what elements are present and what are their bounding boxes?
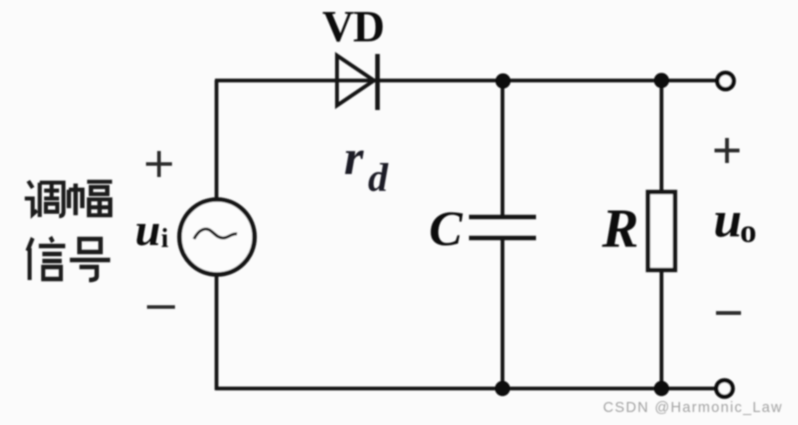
svg-text:d: d (368, 155, 389, 200)
svg-text:i: i (161, 223, 169, 253)
wire capacitor bottom lead (501, 239, 505, 389)
svg-text:o: o (740, 214, 757, 250)
minus sign at output (716, 311, 741, 315)
diode VD cathode bar (375, 54, 380, 110)
label 幅 (Chinese: amplitude) (69, 182, 112, 215)
wire capacitor top lead (501, 80, 505, 216)
wire top horizontal from source to output terminal (215, 79, 716, 83)
label 信 (Chinese: signal-1) (27, 237, 65, 280)
plus sign at output (715, 138, 740, 163)
plus sign at source (146, 151, 172, 177)
junction node bottom-resistor (654, 381, 669, 396)
svg-text:u: u (714, 193, 742, 249)
output terminal bottom (open circle) (716, 380, 732, 396)
output terminal top (open circle) (717, 73, 733, 89)
junction node top-capacitor (495, 73, 510, 88)
diode VD triangle (337, 56, 374, 106)
minus sign at source (147, 305, 175, 309)
junction node top-resistor (654, 73, 669, 88)
source U1 circle (AM signal source) (180, 200, 255, 275)
junction node bottom-capacitor (495, 381, 510, 396)
svg-text:R: R (601, 198, 639, 259)
svg-text:VD: VD (322, 2, 384, 51)
capacitor C top plate (469, 215, 536, 220)
svg-text:u: u (135, 204, 161, 255)
wire left vertical upper (source top lead) (215, 80, 219, 200)
resistor R body (648, 192, 675, 270)
wire resistor bottom lead (660, 269, 664, 389)
wire bottom horizontal (215, 387, 716, 391)
svg-text:C: C (429, 200, 463, 256)
wire resistor top lead (660, 80, 664, 194)
capacitor C bottom plate (469, 236, 536, 241)
source sine tilde symbol (194, 229, 237, 239)
wire left vertical lower (source bottom lead) (215, 274, 219, 390)
label 调 (Chinese: modulate) (25, 181, 64, 217)
svg-text:CSDN @Harmonic_Law: CSDN @Harmonic_Law (603, 400, 783, 416)
label 号 (Chinese: signal-2) (70, 239, 110, 280)
svg-text:r: r (344, 129, 364, 185)
